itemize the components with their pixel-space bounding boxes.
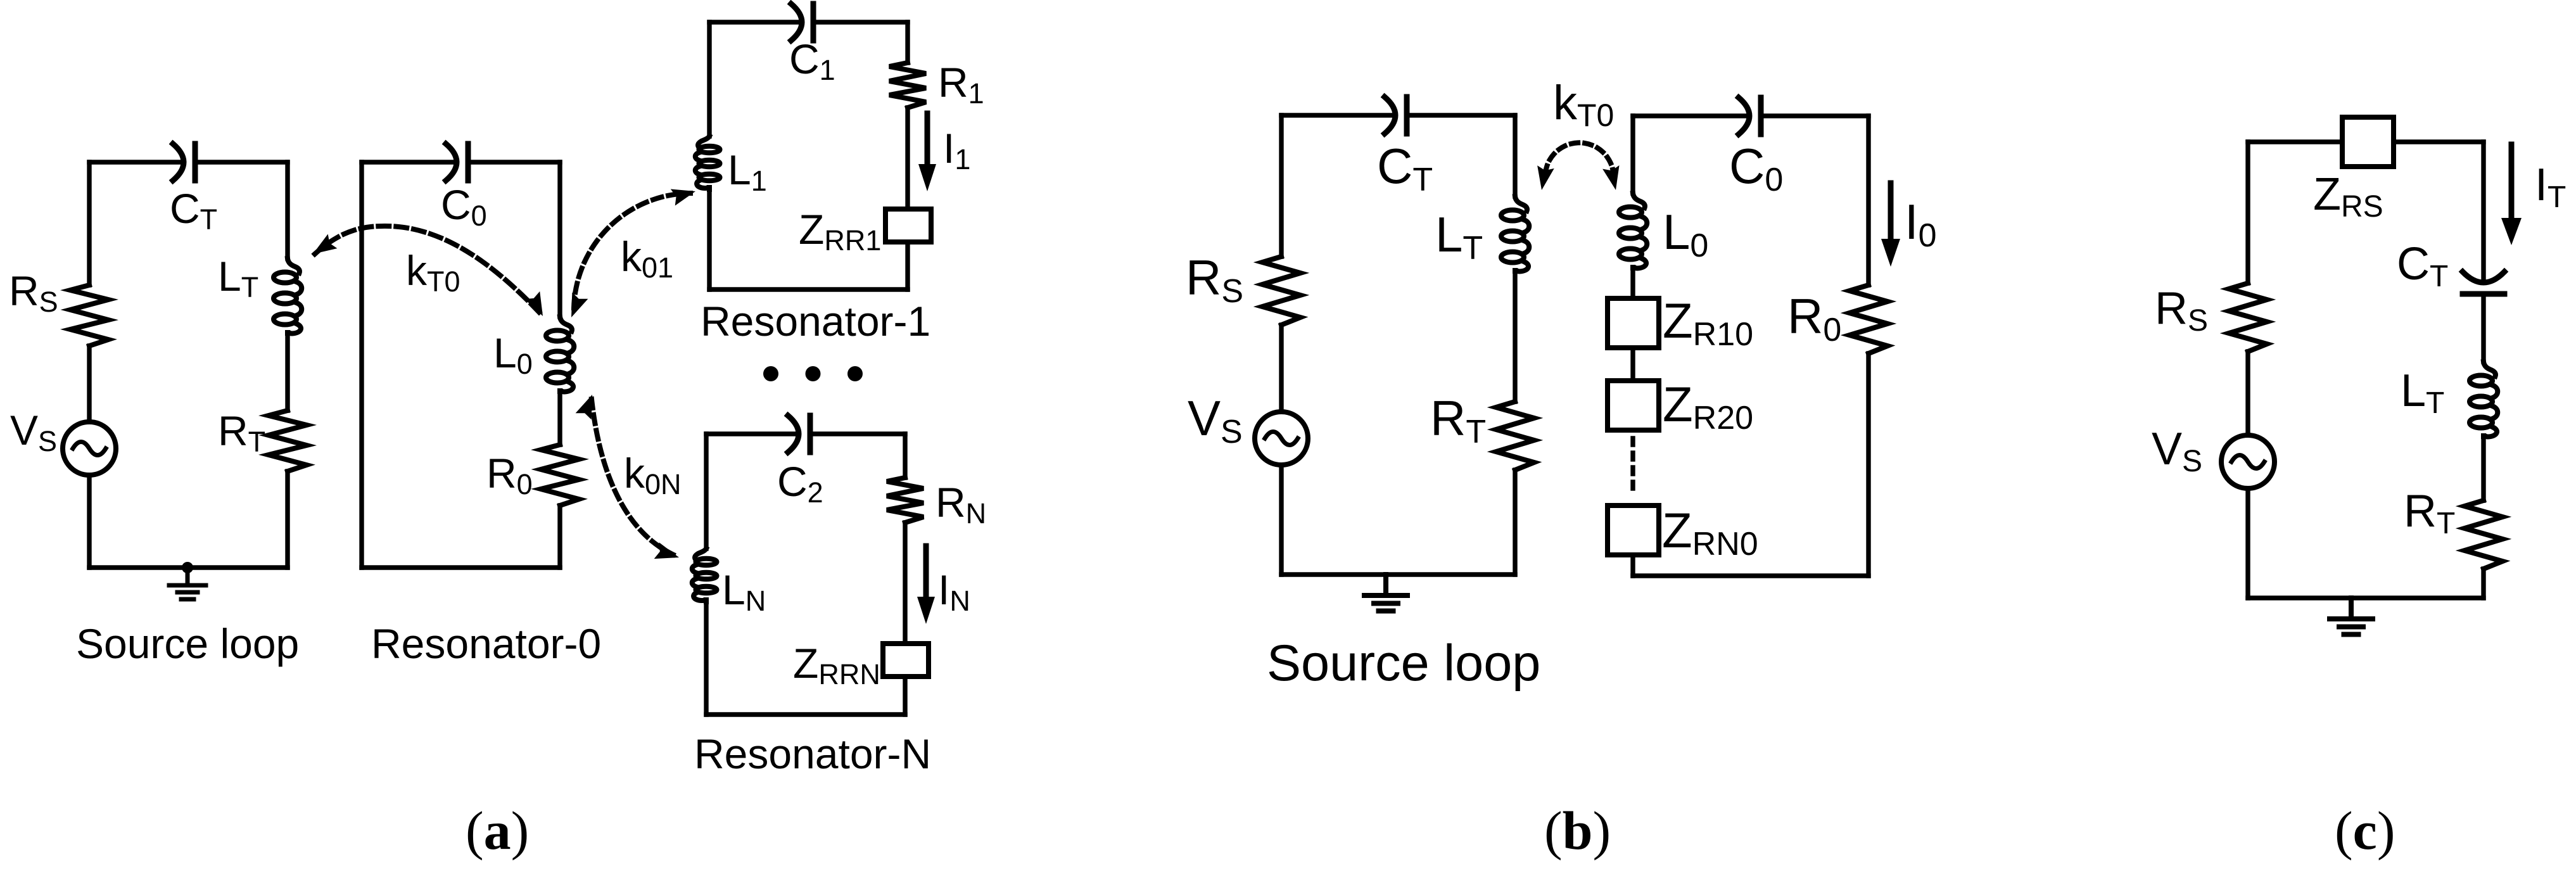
svg-text:ZR10: ZR10 [1663, 293, 1753, 353]
svg-text:C1: C1 [789, 35, 835, 86]
svg-text:CT: CT [1377, 138, 1433, 198]
svg-text:I0: I0 [1905, 194, 1937, 254]
svg-text:Source loop: Source loop [1267, 635, 1540, 692]
svg-text:IN: IN [938, 566, 970, 617]
svg-text:RN: RN [936, 479, 986, 530]
svg-text:ZRS: ZRS [2313, 169, 2383, 224]
svg-text:(a): (a) [466, 800, 529, 861]
svg-text:VS: VS [1188, 390, 1243, 450]
svg-text:VS: VS [2152, 424, 2202, 478]
svg-text:LT: LT [2401, 366, 2444, 420]
svg-text:RT: RT [1430, 390, 1486, 450]
svg-text:(c): (c) [2335, 800, 2395, 861]
svg-text:CT: CT [2397, 239, 2448, 293]
svg-text:VS: VS [10, 407, 57, 457]
svg-text:C2: C2 [777, 458, 823, 509]
svg-text:k01: k01 [621, 233, 673, 284]
svg-text:ZR20: ZR20 [1663, 376, 1753, 436]
svg-text:R0: R0 [486, 450, 533, 500]
svg-text:R1: R1 [938, 59, 984, 110]
svg-text:Resonator-1: Resonator-1 [701, 298, 930, 345]
svg-text:ZRRN: ZRRN [793, 640, 880, 690]
svg-text:CT: CT [170, 185, 217, 236]
svg-text:k0N: k0N [624, 450, 682, 500]
svg-text:RS: RS [2155, 283, 2208, 338]
svg-text:Resonator-N: Resonator-N [694, 730, 931, 777]
svg-text:ZRN0: ZRN0 [1662, 502, 1758, 563]
svg-text:RS: RS [1186, 250, 1243, 310]
svg-text:RT: RT [2404, 486, 2455, 540]
svg-text:Resonator-0: Resonator-0 [371, 620, 601, 667]
svg-text:RT: RT [218, 407, 265, 458]
svg-text:LT: LT [1435, 207, 1483, 267]
svg-text:kT0: kT0 [1553, 76, 1614, 133]
svg-text:L1: L1 [728, 146, 767, 197]
svg-text:L0: L0 [493, 329, 533, 380]
svg-text:(b): (b) [1544, 800, 1611, 861]
svg-text:RS: RS [9, 267, 58, 318]
svg-text:ZRR1: ZRR1 [799, 206, 881, 257]
svg-text:L0: L0 [1663, 204, 1708, 264]
svg-text:R0: R0 [1787, 288, 1841, 348]
svg-text:C0: C0 [1729, 138, 1783, 198]
svg-text:IT: IT [2535, 160, 2566, 214]
svg-text:LN: LN [722, 566, 766, 617]
svg-text:I1: I1 [943, 125, 970, 175]
svg-text:Source loop: Source loop [76, 620, 299, 667]
svg-text:C0: C0 [441, 181, 487, 232]
svg-text:kT0: kT0 [406, 247, 460, 298]
svg-text:LT: LT [218, 253, 258, 303]
